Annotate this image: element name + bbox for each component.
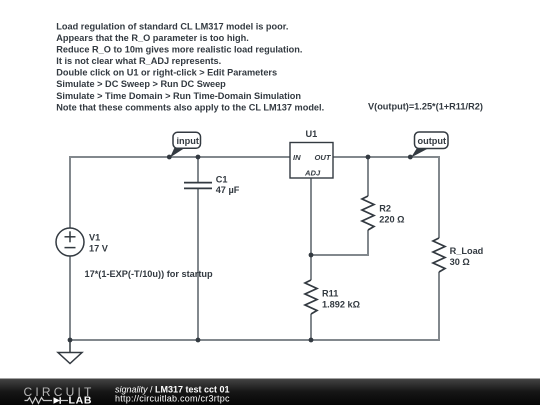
junction C1 top — [196, 155, 201, 160]
comment text block — [56, 21, 324, 112]
svg-text:R_Load: R_Load — [450, 246, 484, 256]
footer bar — [0, 379, 540, 405]
op-amp U1 regulator box — [290, 143, 333, 179]
svg-text:Note that these comments also: Note that these comments also apply to t… — [56, 102, 324, 112]
wire adj pin down — [310, 178, 312, 255]
logo resistor zigzag — [25, 398, 53, 404]
wire r11 bottom lead — [310, 314, 312, 340]
wire r2 top lead — [367, 157, 369, 196]
svg-text:R2: R2 — [379, 204, 391, 214]
svg-text:U1: U1 — [306, 129, 318, 139]
resistor R2 — [362, 196, 374, 230]
svg-text:Load regulation of standard CL: Load regulation of standard CL LM317 mod… — [56, 21, 288, 31]
svg-text:IN: IN — [293, 153, 301, 162]
svg-text:17 V: 17 V — [89, 244, 109, 254]
junction R2 top — [366, 155, 371, 160]
wire c1 branch top — [197, 157, 199, 182]
svg-text:Simulate > Time Domain > Run T: Simulate > Time Domain > Run Time-Domain… — [56, 91, 301, 101]
junction C1 bottom — [196, 338, 201, 343]
svg-text:It is not clear what R_ADJ rep: It is not clear what R_ADJ represents. — [56, 56, 221, 66]
wire left vertical + top rail left — [70, 157, 290, 228]
svg-text:Double click on U1 or right-cl: Double click on U1 or right-click > Edit… — [56, 68, 277, 78]
svg-text:Reduce R_O to 10m gives more r: Reduce R_O to 10m gives more realistic l… — [56, 45, 302, 55]
svg-text:R11: R11 — [322, 289, 338, 299]
resistor R_Load — [433, 238, 445, 272]
junction ADJ node — [309, 253, 314, 258]
wire c1 branch bottom — [197, 189, 199, 340]
svg-text:V1: V1 — [89, 233, 100, 243]
junction ground — [68, 338, 73, 343]
svg-text:http://circuitlab.com/cr3rtpc: http://circuitlab.com/cr3rtpc — [115, 394, 230, 404]
svg-text:LAB: LAB — [69, 395, 93, 405]
svg-text:C1: C1 — [216, 174, 228, 184]
svg-text:1.892 kΩ: 1.892 kΩ — [322, 300, 360, 310]
logo diode — [54, 397, 61, 404]
svg-text:220 Ω: 220 Ω — [379, 214, 404, 224]
wire rload bottom + bottom rail + v1 bottom — [70, 256, 439, 340]
wire r11 top lead — [310, 255, 312, 280]
resistor R11 — [305, 280, 317, 314]
capacitor C1 — [184, 183, 212, 189]
node input flag — [167, 132, 201, 159]
ground — [58, 340, 82, 364]
svg-text:ADJ: ADJ — [304, 168, 321, 177]
voltage source V1 — [56, 228, 84, 256]
svg-text:V(output)=1.25*(1+R11/R2): V(output)=1.25*(1+R11/R2) — [368, 102, 483, 112]
svg-text:input: input — [177, 136, 199, 146]
wire r2 bottom lead — [311, 230, 368, 255]
svg-text:OUT: OUT — [315, 153, 332, 162]
junction R11 bottom — [309, 338, 314, 343]
svg-text:Appears that the R_O parameter: Appears that the R_O parameter is too hi… — [56, 33, 248, 43]
svg-text:Simulate > DC Sweep > Run DC S: Simulate > DC Sweep > Run DC Sweep — [56, 79, 226, 89]
node output flag — [408, 132, 448, 159]
svg-text:47 µF: 47 µF — [216, 185, 240, 195]
svg-text:output: output — [418, 136, 447, 146]
svg-text:17*(1-EXP(-T/10u)) for startup: 17*(1-EXP(-T/10u)) for startup — [85, 269, 214, 279]
svg-text:30 Ω: 30 Ω — [450, 257, 470, 267]
wire top rail right + rload branch — [333, 157, 439, 238]
